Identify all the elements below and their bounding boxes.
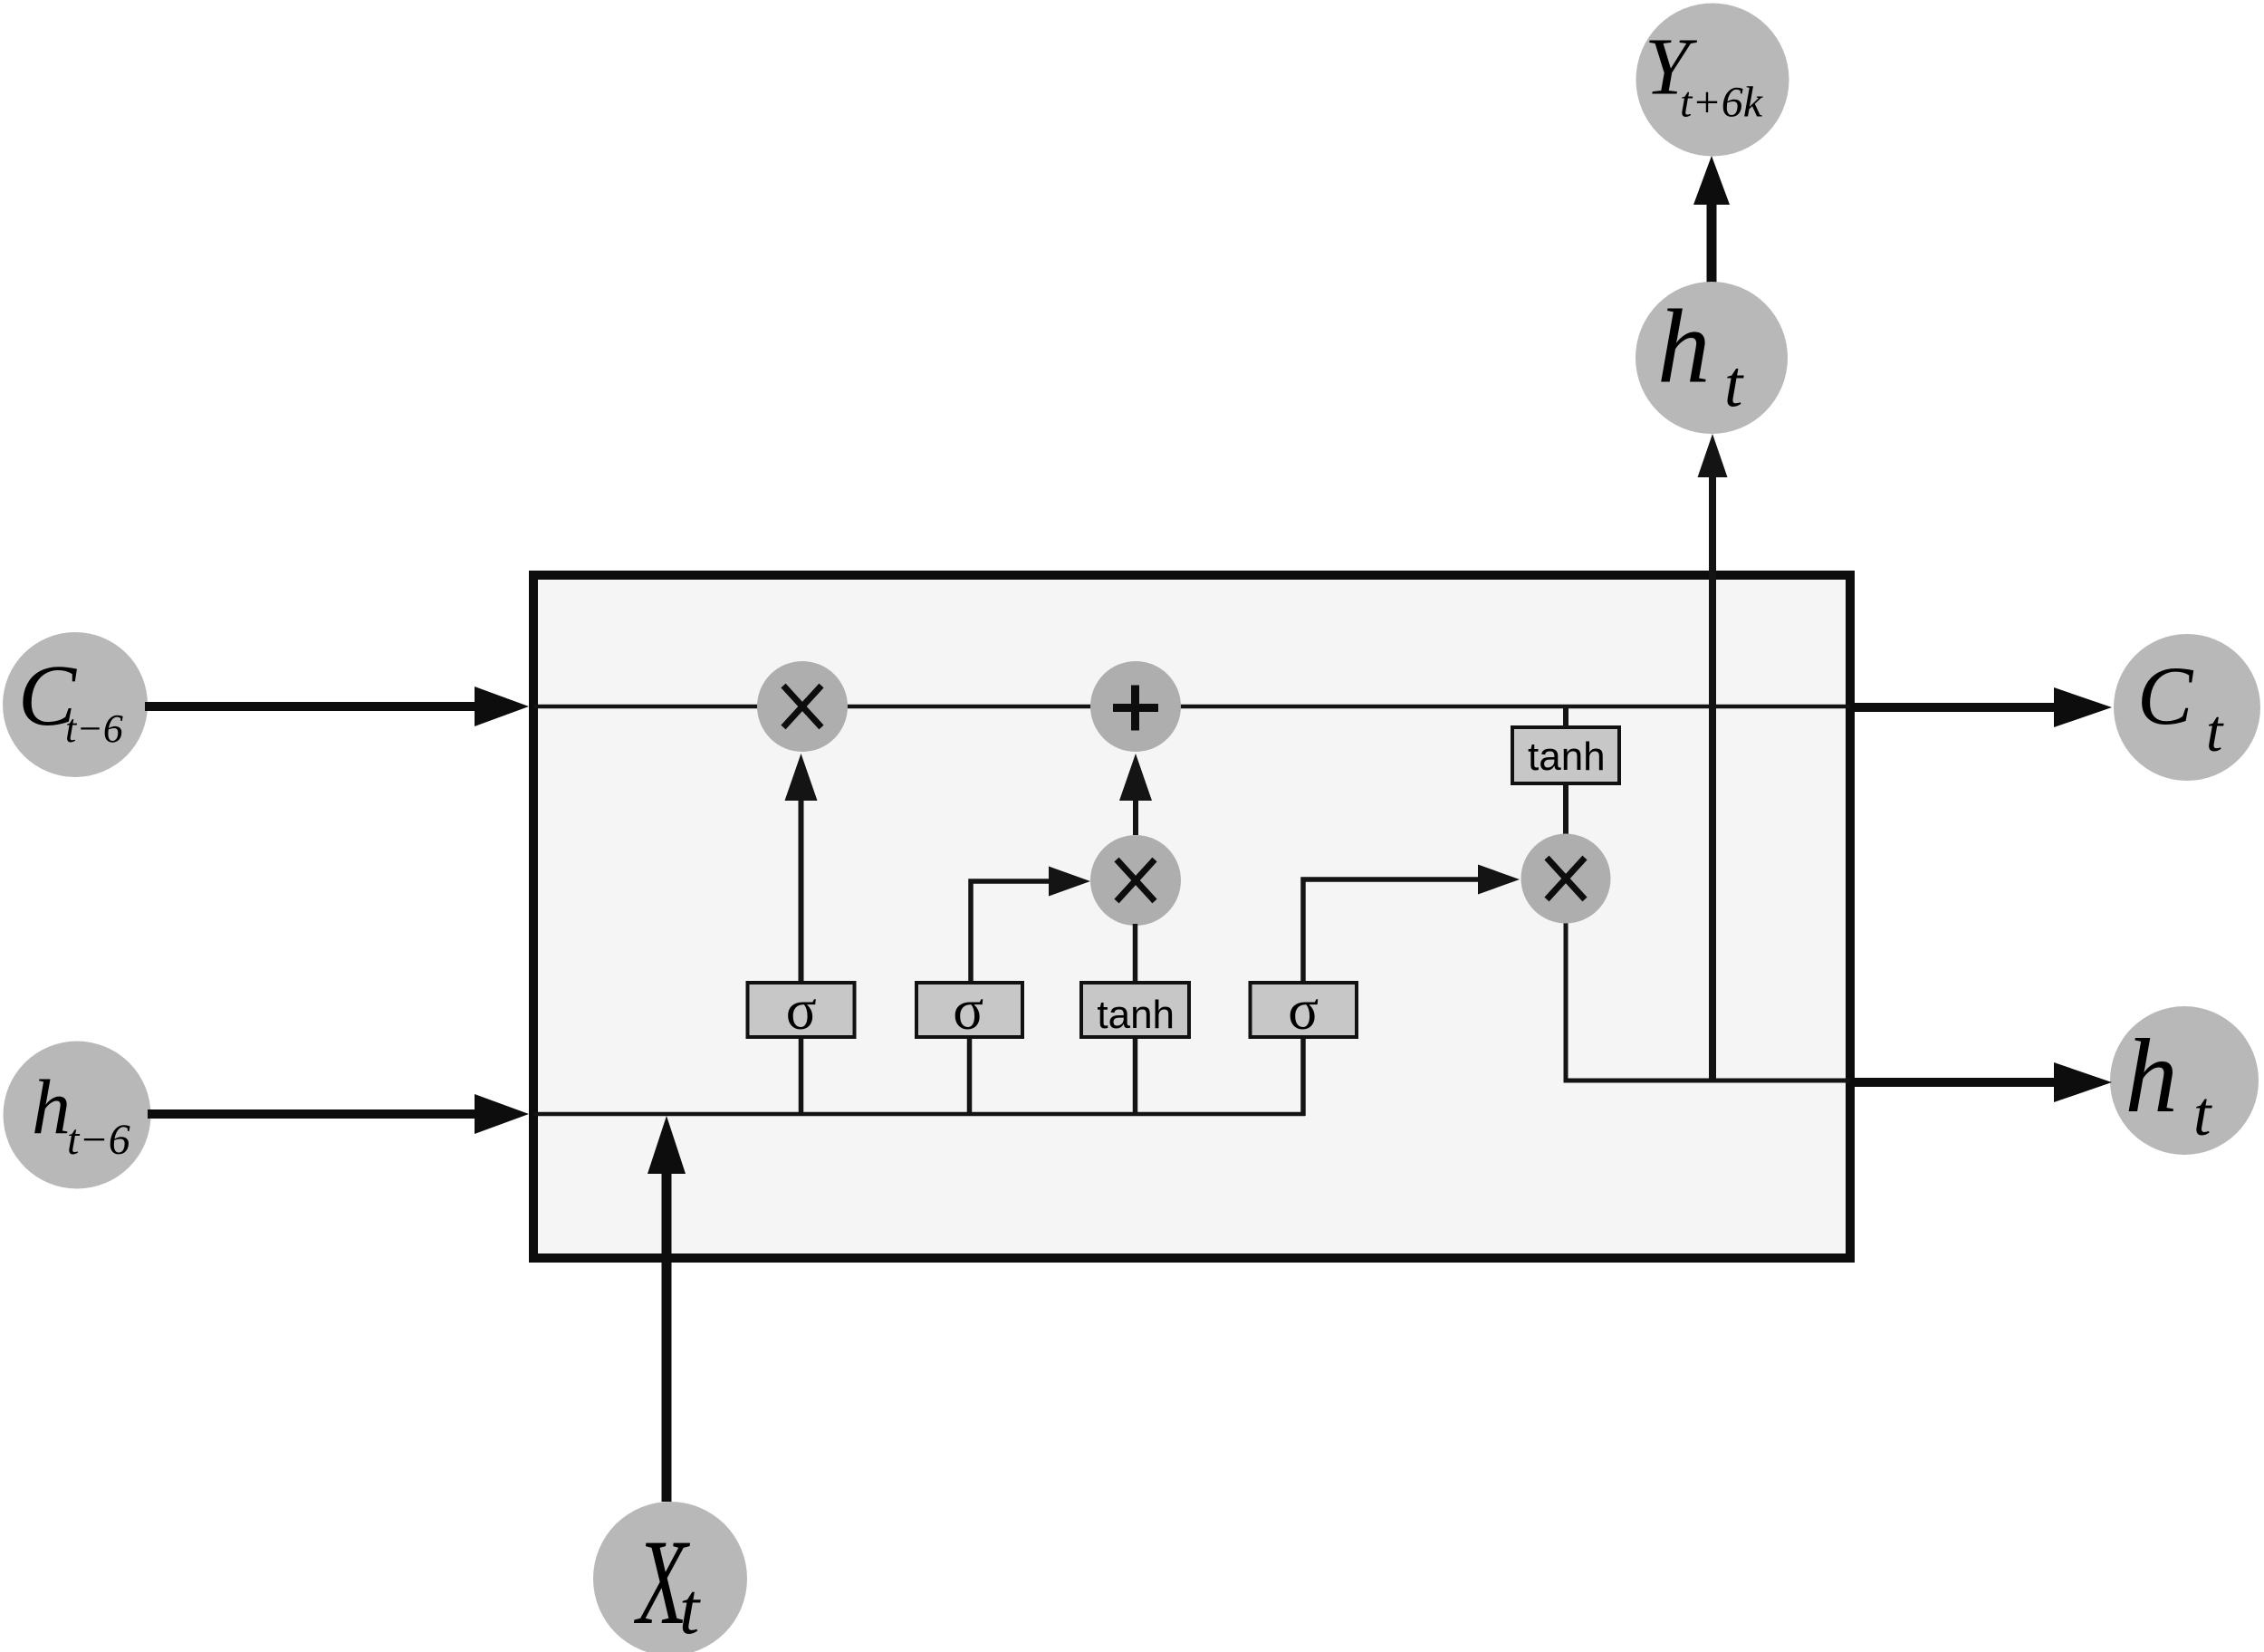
- node h_t top: [1636, 282, 1788, 434]
- svg-text:σ: σ: [1288, 978, 1319, 1042]
- node h_t right: [2110, 1006, 2259, 1155]
- svg-text:t: t: [2193, 1080, 2212, 1149]
- svg-text:t−6: t−6: [65, 706, 123, 751]
- svg-text:σ: σ: [786, 978, 817, 1042]
- wire tanh gate up to x2: [1133, 924, 1138, 981]
- node X_t: [593, 1502, 747, 1652]
- output tanh box: [1512, 727, 1619, 783]
- op circle x3 (output multiply): [1521, 834, 1611, 924]
- wire: output x3 down and right to box edge: [1566, 922, 1850, 1081]
- op circle x2 (input multiply): [1090, 835, 1181, 926]
- arrow h_t up to Y: [1693, 156, 1730, 283]
- svg-text:h: h: [32, 1063, 71, 1150]
- gate sigma 1: [748, 978, 855, 1042]
- svg-text:t: t: [679, 1570, 701, 1649]
- arrow h_{t-6} to box: [148, 1094, 529, 1134]
- svg-text:C: C: [2137, 649, 2194, 742]
- op circle plus: [1090, 661, 1181, 752]
- gate sigma 2: [916, 978, 1022, 1042]
- wire C line down to output tanh: [1563, 705, 1568, 727]
- svg-text:t: t: [1724, 348, 1744, 421]
- wire: h line across box bottom: [533, 1112, 1305, 1117]
- arrow sigma2 up and right to x2: [971, 867, 1090, 982]
- arrow X_t up into box: [648, 1116, 686, 1502]
- svg-text:t+6k: t+6k: [1680, 79, 1764, 127]
- wire sigma3 stem down to h line: [1300, 1039, 1306, 1116]
- svg-text:tanh: tanh: [1097, 993, 1175, 1037]
- wire output tanh down to x3: [1563, 783, 1568, 835]
- wire: vertical to top h_t with arrow: [1709, 453, 1716, 1082]
- node h_{t-6}: [4, 1042, 151, 1189]
- arrow sigma3 up and right to x3: [1303, 865, 1520, 982]
- svg-text:t: t: [2206, 698, 2224, 764]
- arrow sigma1 up to x1: [785, 754, 818, 981]
- svg-text:h: h: [1657, 288, 1711, 405]
- wire sigma1 stem down to h line: [799, 1039, 804, 1116]
- wire: C line across box: [533, 705, 1850, 709]
- svg-text:h: h: [2125, 1018, 2178, 1135]
- arrow x2 up to plus: [1119, 754, 1152, 835]
- LSTM cell box: [533, 575, 1850, 1258]
- gate tanh: [1081, 983, 1189, 1037]
- svg-text:tanh: tanh: [1528, 735, 1606, 779]
- svg-text:t−6: t−6: [67, 1116, 130, 1164]
- arrow box to h_t right: [1855, 1062, 2112, 1102]
- svg-text:σ: σ: [953, 978, 983, 1042]
- node C_{t-6}: [3, 632, 148, 777]
- arrow box to C_t: [1855, 687, 2112, 727]
- op circle x1 (forget gate multiply): [757, 661, 848, 752]
- wire tanh gate stem down to h line: [1133, 1039, 1138, 1116]
- node Y_{t+6k}: [1636, 4, 1789, 157]
- gate sigma 3: [1251, 978, 1357, 1042]
- arrow C_{t-6} to box: [145, 687, 529, 726]
- wire sigma2 stem down to h line: [967, 1039, 973, 1116]
- node C_t: [2114, 634, 2260, 781]
